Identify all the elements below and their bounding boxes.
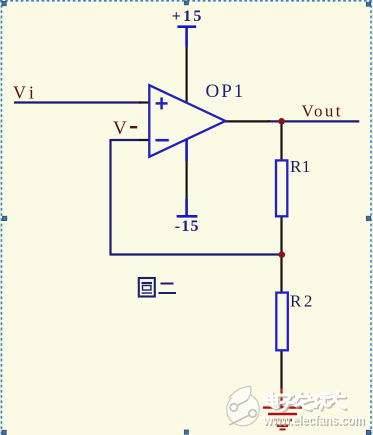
svg-text:R2: R2 (290, 292, 315, 311)
svg-text:Vi: Vi (13, 83, 38, 103)
svg-text:Vout: Vout (302, 102, 343, 121)
svg-text:+15: +15 (172, 8, 204, 25)
svg-text:-15: -15 (175, 218, 200, 235)
svg-text:www.elecfans.com: www.elecfans.com (263, 413, 365, 428)
svg-text:R1: R1 (290, 157, 311, 176)
svg-text:V: V (113, 118, 127, 139)
svg-text:OP1: OP1 (206, 81, 246, 102)
